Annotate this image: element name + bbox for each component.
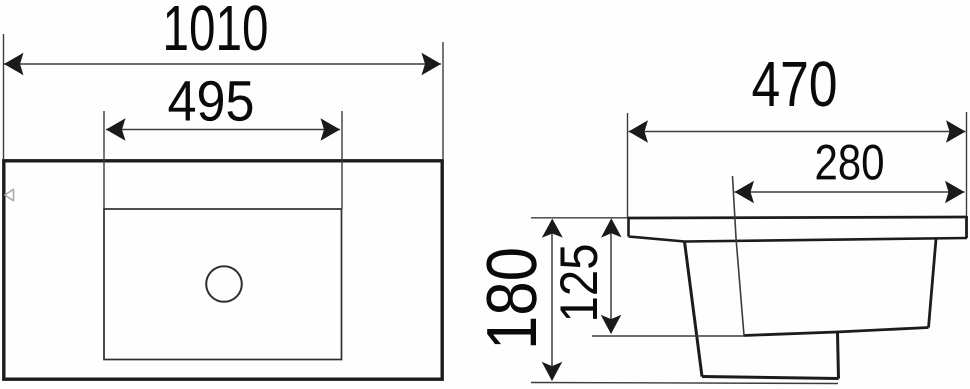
slab left edge [627, 217, 630, 237]
dimension 495: right arrowhead [321, 118, 341, 140]
dimension 125: dimension line (vertical) [610, 220, 612, 333]
outer rectangle (basin outline, top view) [4, 161, 442, 379]
dimension 470: right arrowhead [946, 120, 966, 142]
slab top edge (thick) [628, 217, 967, 218]
dimension 180: text (rotated) [486, 249, 536, 345]
dimension 1010: dimension line [4, 63, 441, 65]
dimension 280: text [817, 145, 883, 180]
dimension 495: dimension line [106, 129, 340, 131]
dimension 180: dimension line (vertical) [551, 220, 553, 380]
dimension 280: left arrowhead [735, 181, 755, 203]
dimension 470: left arrowhead [629, 120, 649, 142]
dimension 125: top arrowhead [601, 218, 622, 237]
inner rectangle (bowl outline, top view) [104, 209, 342, 360]
dimension 470: dimension line [629, 131, 966, 133]
dimension 280: dimension line [735, 191, 965, 193]
dimension 125: bottom extension line [592, 335, 744, 337]
dimension 495: left arrowhead [106, 118, 126, 140]
basin rear wall [929, 239, 937, 328]
dimension 180: top arrowhead [542, 219, 563, 238]
dimension 1010: right extension line [442, 42, 444, 159]
carousel arrow (grey triangle) [5, 189, 14, 200]
slab top extension line (thin, to the left for 180/125 dims) [531, 217, 628, 219]
dimension 470: right extension line [966, 112, 968, 216]
pedestal bottom edge [702, 377, 839, 379]
dimension 1010: left arrowhead [4, 53, 24, 75]
dimension 1010: text [166, 5, 267, 50]
slab right edge [965, 216, 968, 238]
dimension 495: right extension line [341, 111, 343, 209]
basin bottom edge [744, 328, 929, 336]
dimension 1010: right arrowhead [422, 53, 442, 75]
basin outer front wall [685, 242, 703, 377]
dimension 280: right arrowhead [945, 181, 965, 203]
dimension 180: bottom arrowhead [542, 362, 563, 381]
dimension 470: text [753, 61, 836, 106]
dimension 495: left extension line [103, 111, 105, 209]
dimension 125: text (rotated) [560, 246, 598, 319]
dimension 495: text [169, 81, 253, 121]
dimension 125: bottom arrowhead [601, 315, 622, 334]
slab bottom edge [629, 237, 968, 242]
dimension 180: bottom extension line [531, 383, 838, 384]
pedestal right edge [838, 333, 839, 379]
drain circle [206, 266, 242, 302]
basin inner wall (thin, also 280 left extension) [733, 176, 745, 336]
dimension 1010: left extension line [3, 34, 5, 159]
dimension 470: left extension line [627, 113, 629, 217]
